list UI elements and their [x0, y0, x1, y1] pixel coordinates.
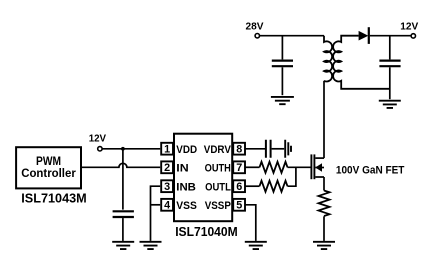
wire R2 to gate node [288, 167, 296, 186]
ground (VDRV, sideways) [285, 140, 291, 158]
wire C2 bottom [122, 218, 124, 241]
ground (12V rail cap) [112, 242, 134, 249]
svg-text:7: 7 [236, 162, 242, 174]
wire C4 top [389, 36, 391, 60]
svg-text:VDD: VDD [176, 144, 197, 156]
svg-text:Controller: Controller [21, 168, 76, 180]
wire C1 top [281, 36, 283, 60]
terminal 28V [255, 34, 259, 38]
terminal 12V output [411, 34, 415, 38]
ground (28V cap) [271, 97, 294, 104]
svg-text:28V: 28V [246, 21, 264, 32]
wire C4 bottom [389, 67, 391, 99]
capacitor C2 [113, 211, 134, 217]
pin 8 box [233, 143, 245, 155]
svg-text:3: 3 [164, 181, 170, 193]
svg-text:1: 1 [164, 144, 170, 156]
IC U1 ISL71040M body [174, 134, 232, 222]
svg-text:ISL71043M: ISL71043M [21, 192, 86, 206]
transformer T1 primary [324, 36, 332, 82]
wire R3 to ground [323, 216, 325, 241]
wire C1 bottom [281, 67, 283, 95]
capacitor C4 [379, 61, 400, 67]
pin 4 box [161, 199, 173, 211]
wire 12V rail down to C2 [122, 149, 124, 210]
transformer T1 secondary [333, 36, 390, 89]
svg-text:ISL71040M: ISL71040M [175, 225, 238, 239]
svg-text:4: 4 [164, 200, 170, 212]
wire PWM output to IN pin 2 (with hop) [82, 163, 160, 167]
ground (VSSP) [245, 242, 267, 249]
svg-text:OUTH: OUTH [205, 163, 231, 175]
svg-text:2: 2 [164, 162, 170, 174]
capacitor C1 [272, 61, 293, 67]
capacitor C3 [266, 140, 271, 158]
wire drain to transformer [323, 81, 325, 158]
resistor R1 (OUTH gate) [260, 162, 288, 173]
svg-text:6: 6 [236, 181, 242, 193]
ground (INB/VSS) [140, 242, 162, 249]
svg-text:VSS: VSS [176, 200, 197, 212]
svg-text:8: 8 [236, 144, 242, 156]
wire source down [323, 177, 325, 191]
svg-text:12V: 12V [400, 21, 418, 32]
pin 6 box [233, 180, 245, 192]
wire VDRV pin 8 to C3 [245, 148, 265, 150]
junction dot 12V rail [121, 147, 125, 151]
wire OUTL pin 6 [245, 185, 259, 187]
pin 3 box [161, 180, 173, 192]
pin 1 box [161, 143, 173, 155]
pin 7 box [233, 161, 245, 173]
wire C3 to ground [272, 148, 285, 150]
transistor Q1 100V GaN FET [311, 154, 324, 179]
svg-text:INB: INB [176, 181, 196, 193]
resistor R2 (OUTL gate) [260, 181, 288, 192]
svg-text:VSSP: VSSP [205, 200, 232, 212]
svg-text:VDRV: VDRV [204, 144, 231, 156]
svg-text:PWM: PWM [36, 156, 61, 168]
svg-text:IN: IN [176, 163, 188, 175]
resistor R3 (source) [319, 191, 330, 216]
svg-text:OUTL: OUTL [205, 181, 231, 193]
pin 5 box [233, 199, 245, 211]
wire 12V to VDD pin 1 [102, 148, 160, 150]
wire R1 to gate [288, 166, 311, 168]
wire INB pin 3 to ground [151, 186, 161, 241]
PWM controller U2 [16, 147, 81, 188]
ground (source resistor) [313, 242, 335, 249]
wire OUTH pin 7 [245, 166, 259, 168]
wire 28V rail [260, 35, 324, 37]
svg-text:12V: 12V [89, 134, 107, 145]
diode D1 [359, 27, 412, 44]
svg-text:5: 5 [236, 200, 242, 212]
terminal 12V rail [98, 147, 102, 151]
pin 2 box [161, 161, 173, 173]
svg-text:100V GaN FET: 100V GaN FET [336, 164, 405, 176]
wire VSS pin 4 to ground [151, 204, 161, 206]
wire VSSP pin 5 to ground [245, 205, 256, 241]
ground (12V cap) [379, 101, 401, 108]
